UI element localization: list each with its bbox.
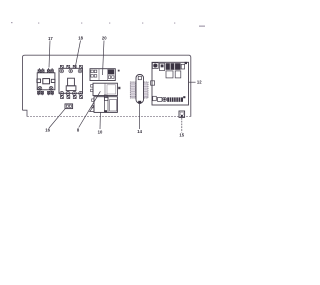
svg-text:12: 12: [197, 80, 202, 85]
svg-text:10: 10: [98, 129, 103, 134]
svg-text:18: 18: [78, 36, 83, 41]
svg-text:15: 15: [179, 133, 184, 138]
svg-text:17: 17: [48, 36, 53, 41]
svg-text:16: 16: [45, 127, 50, 132]
svg-text:14: 14: [137, 129, 142, 134]
svg-text:20: 20: [102, 36, 107, 41]
